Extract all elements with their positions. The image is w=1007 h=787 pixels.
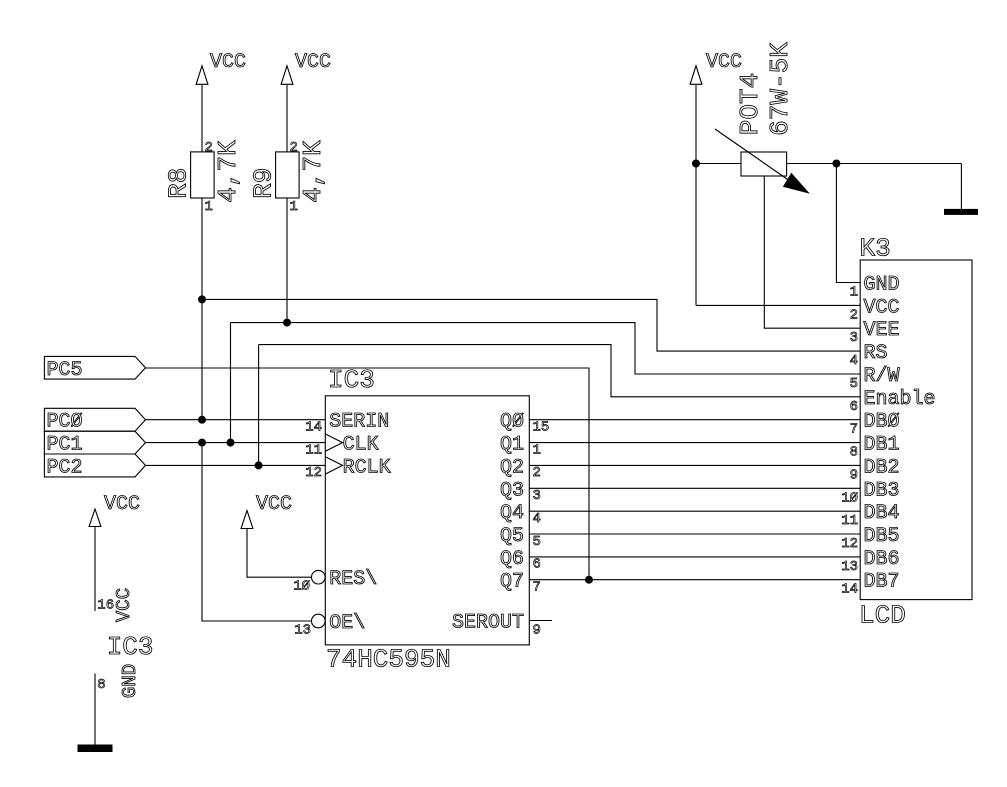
svg-text:Enable: Enable [864, 388, 936, 411]
svg-text:R9: R9 [248, 168, 278, 199]
svg-text:DB4: DB4 [864, 502, 900, 525]
svg-text:3: 3 [533, 488, 541, 504]
inversion circle OE [312, 614, 326, 628]
wire pot wiper to K3 VEE pin 3 [764, 176, 860, 328]
wire VCC down to pot left terminal and K3 VCC pin [695, 85, 697, 305]
supply symbol VCC (POT4) [690, 51, 742, 84]
svg-text:13: 13 [841, 559, 858, 575]
svg-text:VCC: VCC [295, 51, 331, 74]
svg-text:4,7K: 4,7K [213, 140, 243, 203]
svg-text:CLK: CLK [343, 434, 379, 457]
svg-text:DB2: DB2 [864, 456, 900, 479]
svg-text:R/W: R/W [864, 365, 900, 388]
svg-text:PC2: PC2 [47, 456, 83, 479]
junction at pot left terminal [692, 160, 700, 168]
svg-text:R8: R8 [163, 168, 193, 199]
wire PC2 to RCLK [146, 464, 326, 466]
clock symbol RCLK [325, 457, 342, 474]
wire PC0 to SERIN [146, 419, 326, 421]
junction R8 on SERIN wire [198, 416, 206, 424]
svg-text:VCC: VCC [256, 493, 292, 516]
junction OE branch on CLK wire [198, 439, 206, 447]
wire Q0 to DB0 [529, 419, 860, 421]
net flag PC1 [44, 431, 145, 456]
svg-text:GND: GND [864, 274, 900, 297]
svg-text:OE\: OE\ [329, 612, 365, 635]
svg-text:Q7: Q7 [500, 571, 524, 594]
svg-text:14: 14 [305, 420, 322, 436]
svg-text:IC3: IC3 [107, 632, 154, 662]
supply symbol VCC (R9) [281, 51, 331, 84]
wire Q6 to DB6 [529, 556, 860, 558]
net flag PC5 [44, 356, 145, 382]
junction PC5 tap on Q7 wire [585, 576, 593, 584]
svg-text:5: 5 [533, 534, 541, 550]
svg-text:POT4: POT4 [735, 73, 765, 135]
svg-text:2: 2 [290, 140, 298, 156]
wire PC2 net to K3 Enable pin 6 [259, 345, 861, 397]
svg-text:VEE: VEE [864, 319, 900, 342]
wire Q5 to DB5 [529, 533, 860, 535]
wire to ground symbol [960, 164, 962, 209]
potentiometer POT4 67W-5K [715, 42, 810, 194]
svg-text:1: 1 [850, 285, 858, 301]
svg-text:2: 2 [533, 465, 541, 481]
wire pot right terminal to ground [787, 163, 962, 165]
svg-text:8: 8 [850, 445, 858, 461]
wire PC5 to DB7 tap [146, 368, 590, 580]
svg-text:1Ø: 1Ø [293, 579, 310, 595]
svg-text:14: 14 [841, 582, 858, 598]
svg-text:4,7K: 4,7K [298, 140, 328, 203]
pin stub SEROUT [529, 620, 552, 622]
svg-text:VCC: VCC [864, 296, 900, 319]
svg-text:SERIN: SERIN [329, 411, 389, 434]
svg-text:VCC: VCC [706, 51, 742, 74]
svg-text:Q4: Q4 [500, 502, 524, 525]
svg-text:2: 2 [850, 307, 858, 323]
wire riser to K3 pin 1 [836, 164, 860, 283]
wire PC1 to CLK [146, 442, 326, 444]
svg-text:13: 13 [294, 623, 311, 639]
svg-text:2: 2 [205, 140, 213, 156]
svg-text:QØ: QØ [500, 411, 524, 434]
supply symbol VCC (R8) [196, 51, 246, 84]
pin 8 ground line [94, 674, 96, 745]
svg-text:DB7: DB7 [864, 571, 900, 594]
wire Q3 to DB3 [529, 487, 860, 489]
svg-text:DB3: DB3 [864, 479, 900, 502]
wire Q2 to DB2 [529, 464, 860, 466]
svg-text:PCØ: PCØ [47, 411, 83, 434]
svg-text:9: 9 [533, 623, 541, 639]
svg-text:11: 11 [841, 513, 858, 529]
svg-text:74HC595N: 74HC595N [326, 645, 451, 675]
svg-text:1Ø: 1Ø [841, 490, 858, 506]
wire VCC to R8 pin 2 [201, 85, 203, 152]
svg-text:12: 12 [841, 536, 858, 552]
svg-text:DB5: DB5 [864, 525, 900, 548]
svg-text:4: 4 [533, 511, 541, 527]
svg-text:RES\: RES\ [329, 568, 377, 591]
op IC3 74HC595N body [325, 365, 529, 675]
junction PC2 riser on RCLK wire [255, 461, 263, 469]
svg-text:3: 3 [850, 330, 858, 346]
svg-text:1: 1 [290, 199, 298, 215]
svg-text:DB1: DB1 [864, 434, 900, 457]
ground (top right) [944, 209, 978, 215]
wire R8 bottom to SERIN net [201, 198, 203, 420]
svg-text:DB6: DB6 [864, 548, 900, 571]
connector K3 body [859, 234, 972, 631]
svg-text:Q2: Q2 [500, 456, 524, 479]
svg-text:7: 7 [533, 580, 541, 596]
resistor R8 [163, 140, 243, 203]
wire pot left terminal [696, 163, 741, 165]
svg-text:VCC: VCC [113, 588, 135, 622]
pin 16 power line [94, 527, 96, 612]
junction R9 on PC1 net [283, 319, 291, 327]
wire PC1 riser [230, 323, 232, 443]
net flag PC2 [44, 454, 145, 479]
svg-text:67W-5K: 67W-5K [765, 42, 795, 136]
clock symbol CLK [325, 434, 342, 451]
wire PC1 net to K3 R/W pin 5 [231, 323, 861, 374]
net flag PC0 [44, 408, 145, 433]
svg-text:11: 11 [305, 442, 322, 458]
svg-text:RCLK: RCLK [343, 456, 391, 479]
svg-text:Q3: Q3 [500, 479, 524, 502]
wire VCC to RES\ pin [247, 529, 312, 578]
svg-text:VCC: VCC [210, 51, 246, 74]
svg-text:15: 15 [533, 420, 550, 436]
svg-text:PC1: PC1 [47, 434, 83, 457]
junction PC1 riser on CLK wire [227, 439, 235, 447]
svg-text:5: 5 [850, 376, 858, 392]
svg-text:7: 7 [850, 422, 858, 438]
resistor R9 [248, 140, 328, 203]
svg-text:GND: GND [119, 664, 141, 698]
wire R9 bottom [286, 198, 288, 323]
junction at K3 GND riser [832, 160, 840, 168]
svg-text:DBØ: DBØ [864, 411, 900, 434]
svg-text:12: 12 [305, 465, 322, 481]
wire OE branch down [202, 443, 312, 621]
svg-text:6: 6 [850, 399, 858, 415]
svg-text:Q6: Q6 [500, 548, 524, 571]
inversion circle RES [312, 570, 326, 584]
svg-text:LCD: LCD [859, 601, 906, 631]
wire branch to K3 RS pin 4 [202, 299, 860, 351]
svg-text:4: 4 [850, 353, 858, 369]
svg-text:SEROUT: SEROUT [452, 612, 524, 635]
svg-text:16: 16 [97, 598, 114, 614]
ground (bottom left) [78, 745, 113, 753]
svg-text:PC5: PC5 [47, 359, 83, 382]
svg-text:Q1: Q1 [500, 434, 524, 457]
supply symbol VCC (RES) [241, 493, 292, 529]
wire Q1 to DB1 [529, 442, 860, 444]
svg-text:IC3: IC3 [328, 365, 375, 395]
svg-text:1: 1 [205, 199, 213, 215]
svg-text:Q5: Q5 [500, 525, 524, 548]
svg-text:9: 9 [850, 467, 858, 483]
svg-text:RS: RS [864, 342, 888, 365]
wire PC2 riser [258, 345, 260, 466]
svg-text:8: 8 [97, 677, 105, 693]
svg-text:VCC: VCC [104, 493, 140, 516]
svg-text:6: 6 [533, 557, 541, 573]
svg-text:1: 1 [533, 442, 541, 458]
wire Q4 to DB4 [529, 510, 860, 512]
svg-text:K3: K3 [860, 234, 891, 264]
wire Q7 to DB7 [529, 579, 860, 581]
junction R8 branch [198, 295, 206, 303]
wire VCC to R9 pin 2 [286, 85, 288, 152]
supply symbol VCC (IC3 pin 16) [89, 493, 140, 527]
wire VCC to K3 pin 2 [696, 304, 860, 306]
